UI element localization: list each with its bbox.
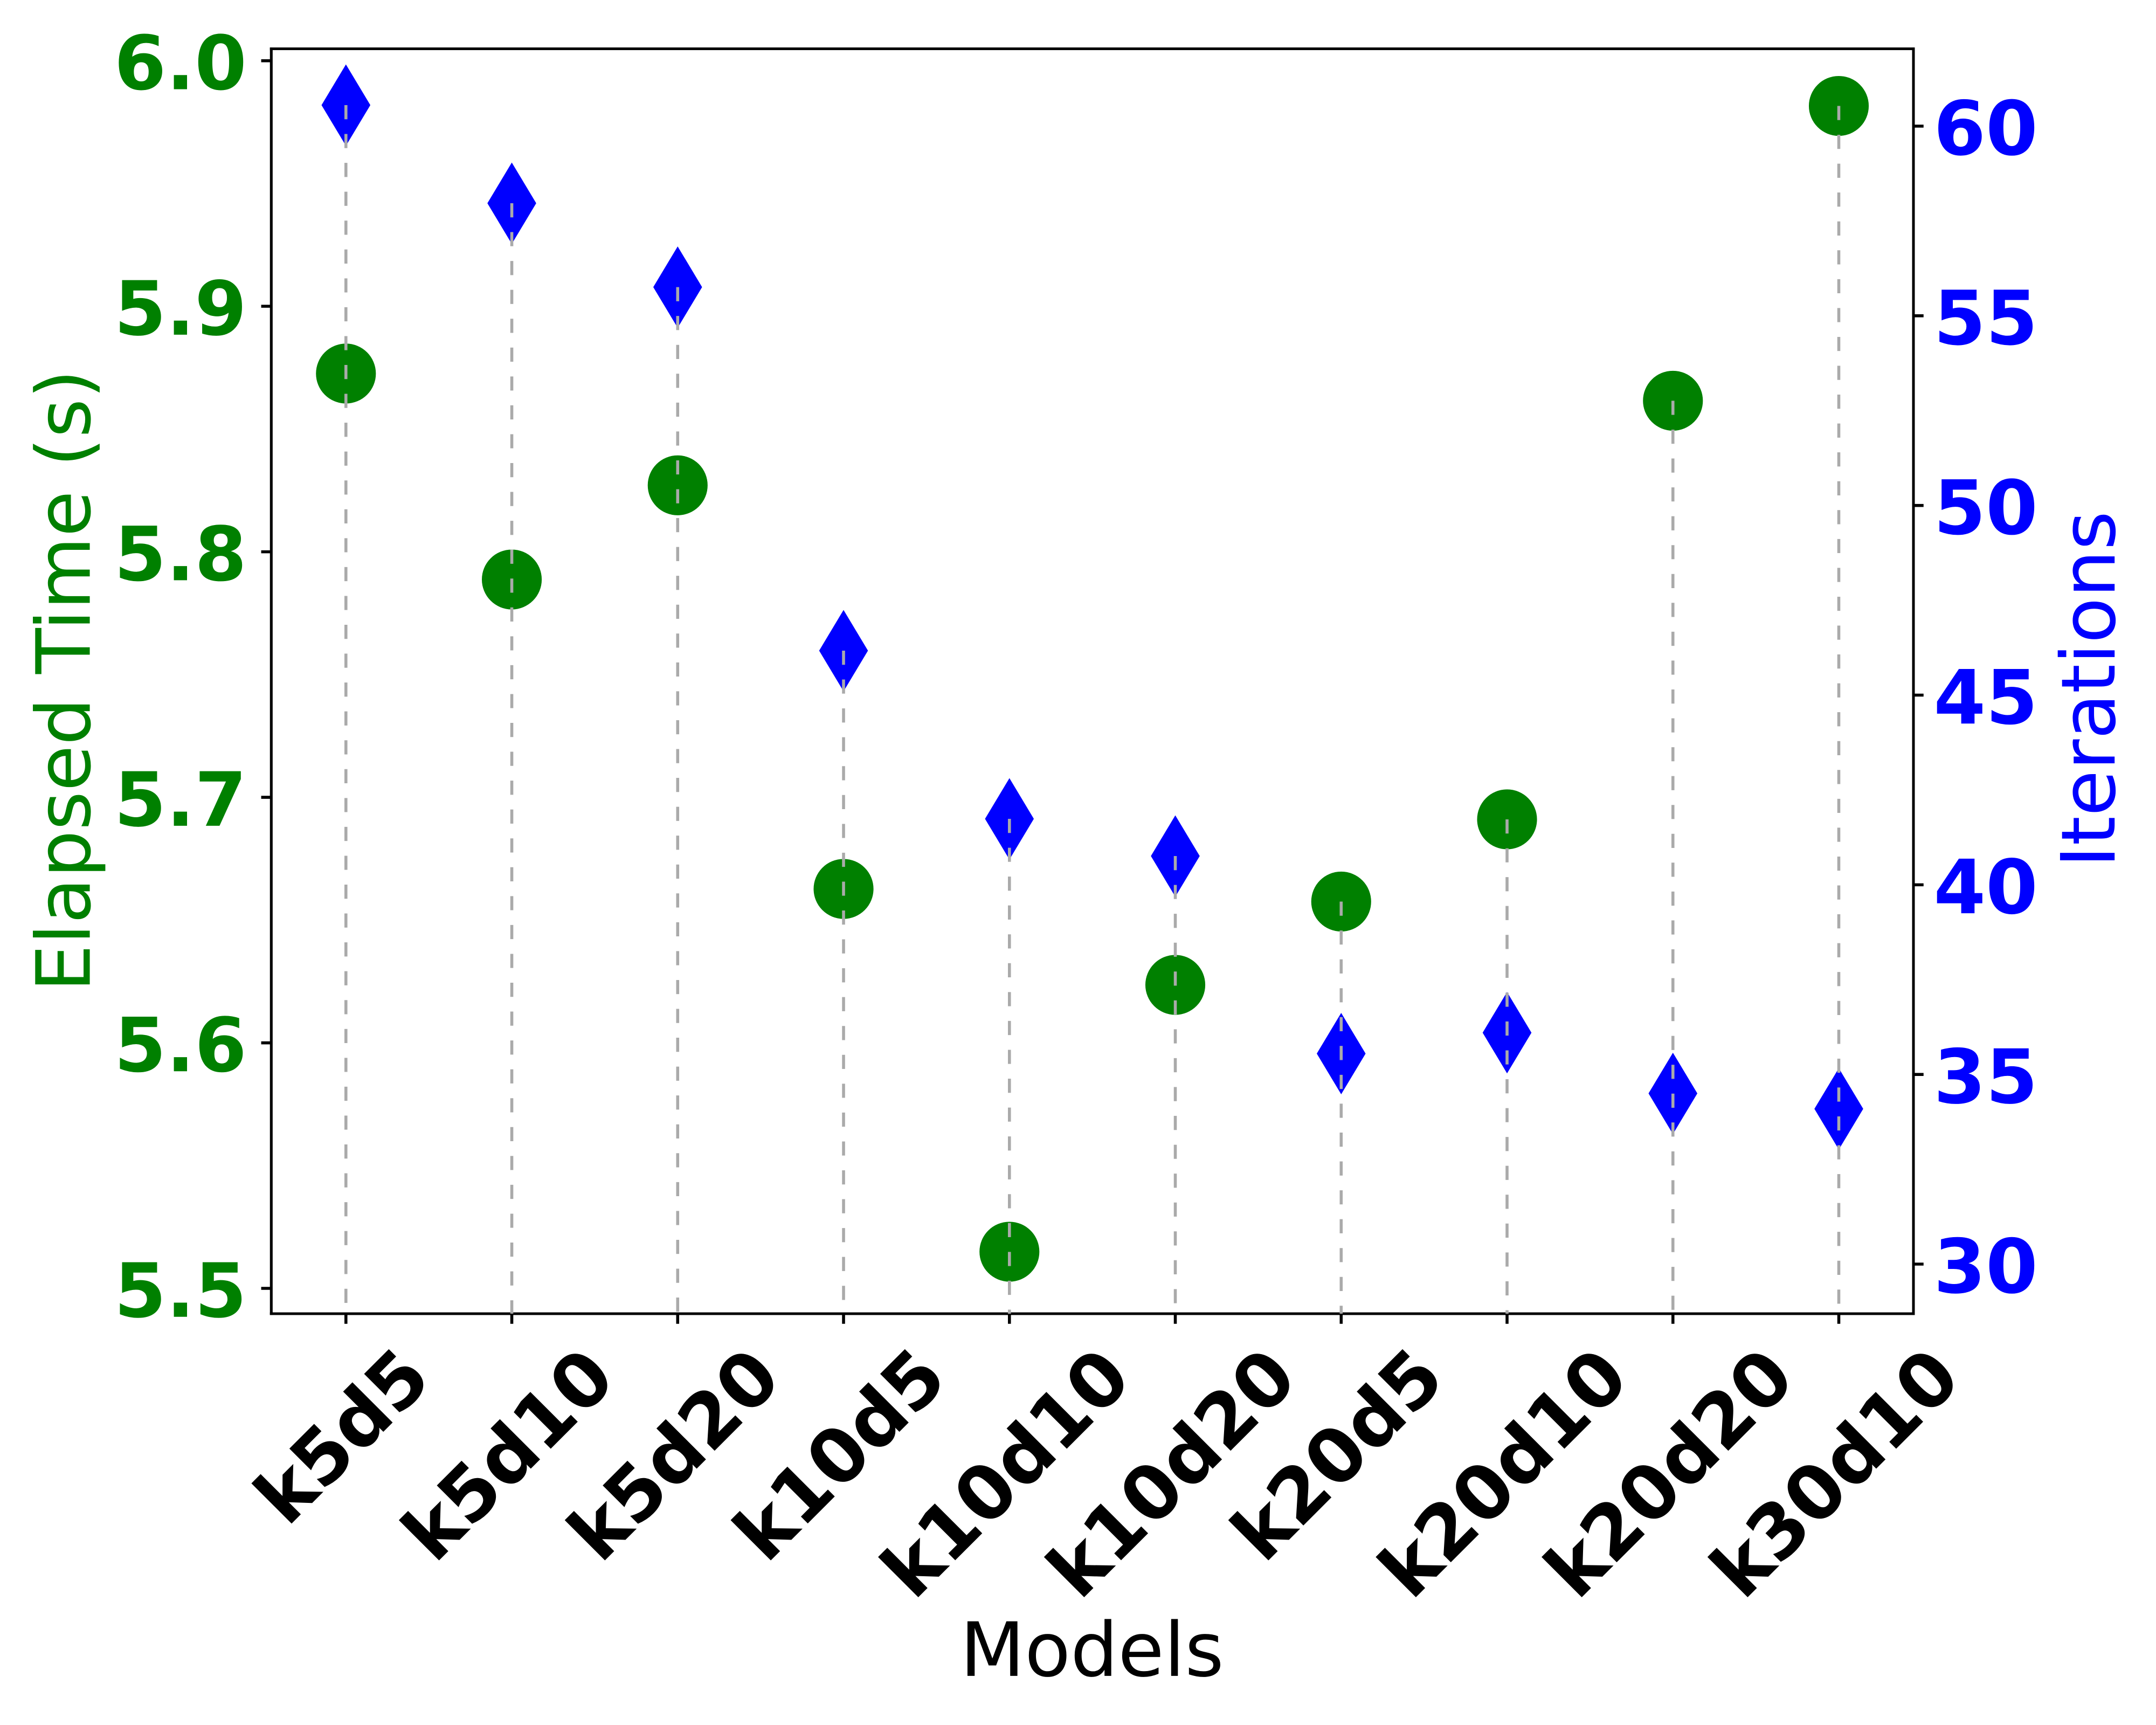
- 40: [1937, 858, 2034, 914]
- 6.0: [119, 33, 243, 90]
- 5.6: [120, 1016, 243, 1072]
- k10d10: [878, 1343, 1132, 1598]
- k20d5: [1228, 1345, 1445, 1562]
- 5.7: [120, 771, 241, 827]
- Models: [968, 1619, 1220, 1677]
- Iterations: [2058, 515, 2116, 860]
- k10d5: [730, 1345, 947, 1562]
- k5d5: [251, 1345, 431, 1524]
- k20d10: [1376, 1343, 1630, 1598]
- 60: [1938, 99, 2034, 156]
- 35: [1939, 1047, 2033, 1104]
- 55: [1939, 289, 2033, 345]
- k30d10: [1708, 1343, 1962, 1598]
- k10d20: [1044, 1343, 1298, 1598]
- 50: [1939, 478, 2034, 535]
- k20d20: [1542, 1343, 1796, 1598]
- 5.8: [120, 525, 243, 581]
- Elapsed Time (s): [33, 376, 105, 984]
- 5.5: [120, 1262, 242, 1318]
- k5d10: [399, 1343, 617, 1561]
- k5d20: [565, 1343, 783, 1561]
- 45: [1937, 669, 2033, 724]
- 30: [1939, 1237, 2034, 1294]
- 5.9: [120, 279, 242, 336]
